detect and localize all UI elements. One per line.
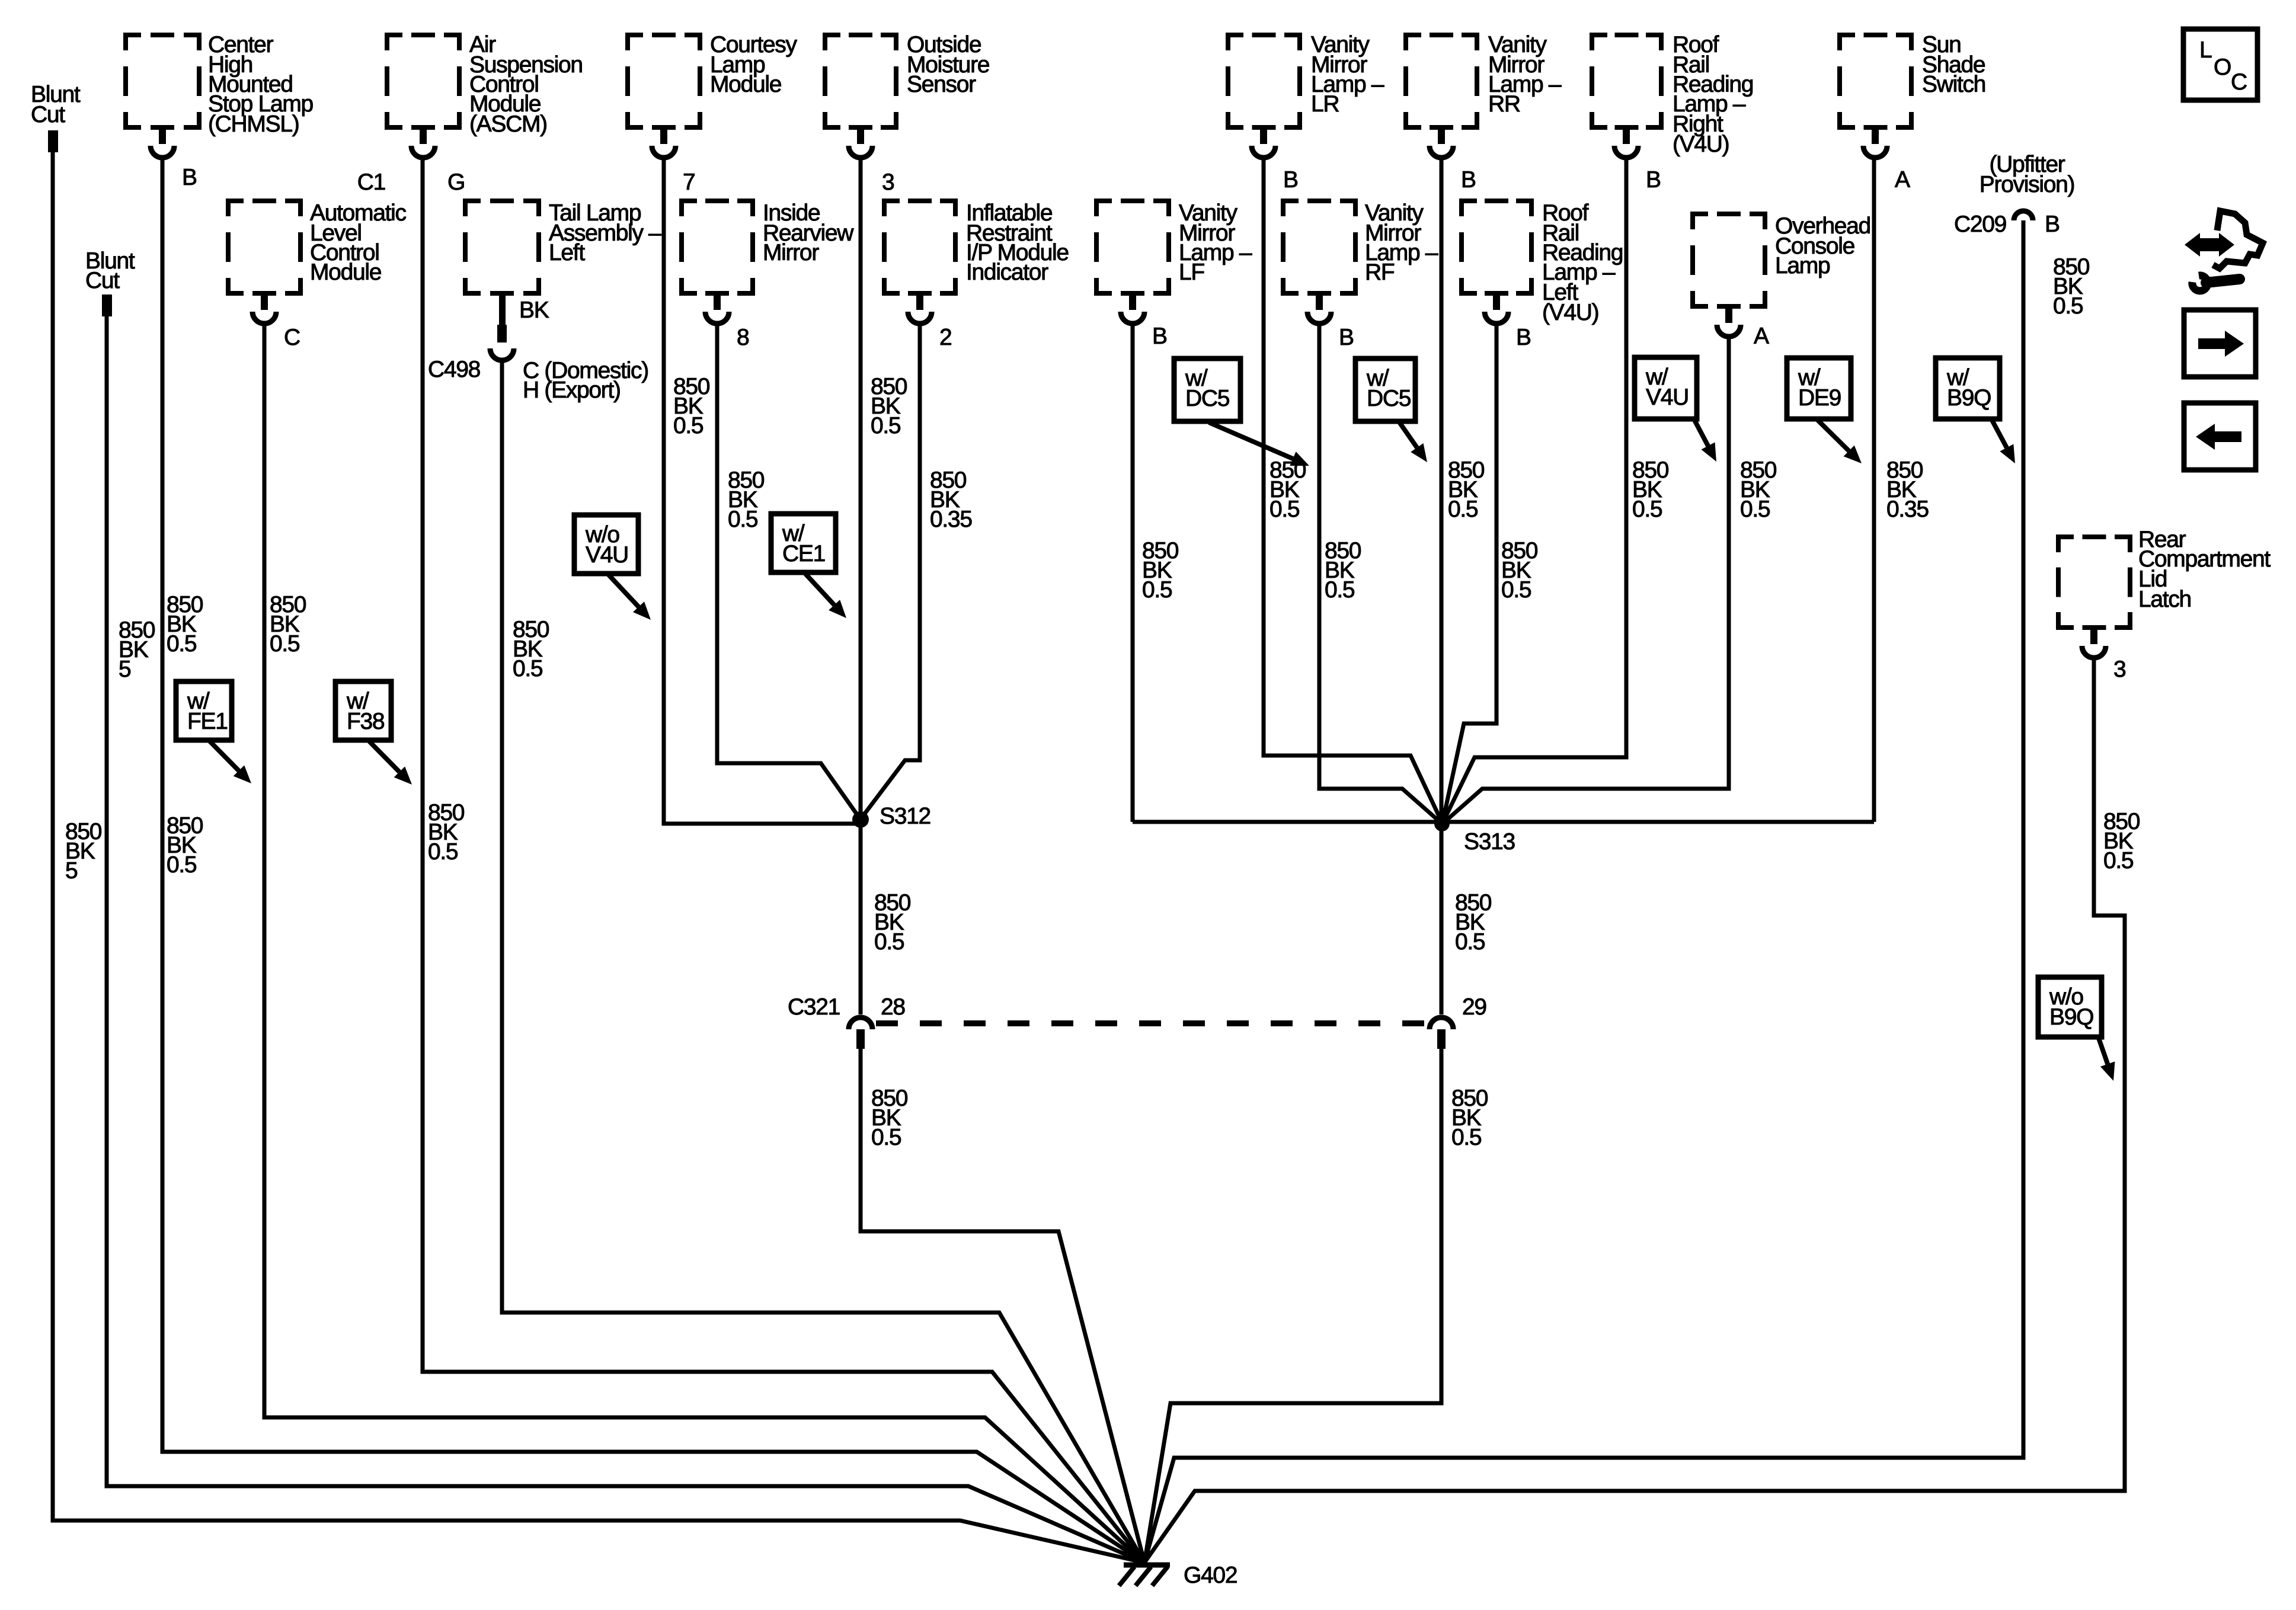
wire dashed harness line C321 between pin 28 and pin 29: [876, 1020, 1426, 1026]
svg-text:A: A: [1895, 167, 1910, 193]
component box Air Suspension Control Module (ASCM): [387, 35, 459, 127]
pin label H (Export): [523, 377, 621, 403]
label Sun Shade Switch name: [1922, 32, 1985, 97]
label Outside Moisture Sensor name: [907, 32, 989, 97]
svg-text:0.5: 0.5: [1501, 577, 1531, 603]
label Automatic Level Control Module name: [310, 200, 407, 285]
wire C209 B to G402: [1144, 220, 2023, 1563]
svg-text:(V4U): (V4U): [1542, 300, 1598, 325]
wire C321 pin 29 to G402: [1144, 1049, 1441, 1563]
svg-text:S313: S313: [1464, 829, 1515, 854]
svg-text:C1: C1: [357, 169, 385, 195]
wire Vanity Mirror RF B to S313: [1319, 322, 1442, 824]
connector label C321: [788, 994, 840, 1020]
label S313: [1464, 829, 1515, 854]
svg-text:L: L: [2199, 37, 2212, 63]
svg-text:B: B: [1152, 324, 1167, 349]
connector pigtail Overhead Console Lamp pin A: [1717, 306, 1741, 337]
svg-text:7: 7: [683, 169, 695, 195]
option box w/o V4U: [574, 515, 651, 620]
connector pigtail Roof Rail Reading Lamp Left pin B: [1485, 293, 1508, 324]
connector pigtail Sun Shade Switch pin A: [1863, 127, 1887, 158]
svg-text:S312: S312: [880, 804, 930, 829]
pin label 7 (Courtesy Lamp): [683, 169, 695, 195]
svg-text:B: B: [1516, 325, 1531, 350]
connector pigtail Vanity Mirror Lamp RF pin B: [1307, 293, 1331, 324]
wire label 850 BK 0.5 inside rearview mirror: [728, 468, 765, 532]
wire label 850 BK 0.5 vanity LR: [1269, 457, 1306, 522]
component box Sun Shade Switch: [1840, 35, 1911, 127]
svg-text:Module: Module: [310, 260, 381, 285]
wire S313 bus Vanity LF to Sun Shade: [1133, 820, 1874, 824]
svg-text:DC5: DC5: [1367, 386, 1411, 411]
pin label BK (Tail Lamp): [519, 297, 549, 323]
option box w/ FE1: [176, 681, 251, 783]
wire Tail Lamp C498 to G402: [502, 359, 1144, 1563]
wire label 850 BK 0.5 vanity LF: [1142, 538, 1179, 603]
svg-text:RR: RR: [1488, 91, 1520, 117]
label Upfitter Provision: [1980, 152, 2074, 197]
legend service icon (double arrow, outline, wrench): [2185, 211, 2263, 291]
svg-text:0.35: 0.35: [930, 507, 972, 532]
component box Inside Rearview Mirror: [682, 201, 753, 293]
component box Vanity Mirror Lamp RR: [1406, 35, 1477, 127]
pin label B (Vanity LR): [1283, 167, 1298, 193]
wire ALCM C to G402: [264, 322, 1144, 1563]
pin label B (Vanity RR): [1461, 167, 1476, 193]
pin label 2 (Inflatable Restraint): [939, 325, 951, 350]
svg-text:B: B: [1646, 167, 1661, 193]
wire Outside Moisture Sensor 3 to S312 to C321 pin 28: [859, 156, 863, 1014]
label Rear Compartment Lid Latch name: [2138, 527, 2271, 612]
pin label 3 (Rear Compartment Lid Latch): [2113, 657, 2125, 682]
label Tail Lamp Assembly Left name: [549, 200, 661, 265]
connector pigtail Vanity Mirror Lamp RR pin B: [1430, 127, 1453, 158]
svg-text:C: C: [2231, 69, 2247, 95]
svg-text:BK: BK: [519, 297, 549, 323]
wire label 850 BK 0.5 tail lamp: [513, 617, 549, 681]
connector C209 arc: [2014, 211, 2033, 220]
pin label C (Domestic): [523, 358, 648, 383]
wire label 850 BK 0.35 inflatable restraint: [930, 468, 972, 532]
svg-text:29: 29: [1462, 994, 1486, 1020]
svg-text:C209: C209: [1954, 212, 2006, 237]
connector pigtail ALCM pin C: [252, 293, 276, 324]
pin label B (Roof Rail Left): [1516, 325, 1531, 350]
wire CHMSL B to G402: [162, 156, 1144, 1563]
connector pigtail Vanity Mirror Lamp LF pin B: [1121, 293, 1144, 324]
svg-text:Cut: Cut: [31, 102, 65, 127]
svg-text:B9Q: B9Q: [1947, 385, 1991, 411]
svg-text:C498: C498: [428, 357, 480, 382]
svg-text:0.5: 0.5: [1740, 497, 1770, 522]
svg-text:0.5: 0.5: [513, 656, 543, 681]
svg-text:0.5: 0.5: [2103, 848, 2134, 873]
pin label G (ASCM): [447, 169, 465, 195]
connector pigtail Roof Rail Reading Lamp Right pin B: [1614, 127, 1638, 158]
blunt cut terminal 2: [102, 295, 112, 316]
svg-text:C: C: [284, 325, 300, 350]
wire Roof Rail Left B to S313: [1443, 322, 1496, 822]
svg-text:Lamp: Lamp: [1775, 253, 1830, 279]
wire label 850 BK 0.5 C209: [2053, 254, 2090, 319]
svg-text:O: O: [2214, 55, 2231, 80]
svg-text:Module: Module: [710, 72, 781, 97]
legend arrow box left: [2184, 403, 2256, 470]
wire label 850 BK 0.5 ASCM: [428, 800, 465, 865]
connector pigtail Inflatable Restraint pin 2: [908, 293, 932, 324]
wire label 850 BK 0.35 sun shade: [1886, 457, 1929, 522]
svg-text:0.5: 0.5: [167, 631, 197, 657]
connector pigtail ASCM C1 pin G: [411, 127, 435, 158]
wire label 850 BK 0.5 vanity RR: [1448, 457, 1485, 522]
wire Sun Shade A drop: [1872, 156, 1876, 822]
label ASCM name: [469, 32, 583, 137]
component box Tail Lamp Assembly Left: [465, 201, 539, 293]
connector label C498: [428, 357, 480, 382]
svg-text:DE9: DE9: [1798, 385, 1841, 411]
svg-text:0.5: 0.5: [1142, 577, 1172, 603]
wire label 850 BK 5 blunt cut 1: [65, 819, 102, 884]
label Blunt Cut 2: [85, 248, 135, 293]
option box w/ DC5 left: [1174, 359, 1309, 466]
junction S313: [1434, 816, 1450, 831]
pin label B (Roof Rail Right): [1646, 167, 1661, 193]
blunt cut terminal 1: [48, 130, 58, 152]
label Inside Rearview Mirror name: [763, 200, 854, 265]
svg-text:Latch: Latch: [2138, 587, 2191, 612]
svg-text:A: A: [1754, 324, 1769, 349]
wire label 850 BK 5 blunt cut 2: [119, 617, 155, 682]
connector C498 inline (tail lamp pin / stub / cup): [490, 293, 514, 360]
connector pigtail CHMSL pin B: [151, 127, 174, 158]
option box w/ F38: [335, 681, 412, 785]
connector label C209: [1954, 212, 2006, 237]
component box Roof Rail Reading Lamp Right (V4U): [1592, 35, 1661, 127]
wire label 850 BK 0.5 courtesy lamp: [673, 374, 710, 438]
svg-text:FE1: FE1: [187, 709, 228, 734]
svg-text:Indicator: Indicator: [966, 260, 1048, 285]
svg-text:0.5: 0.5: [1455, 929, 1485, 955]
wire label 850 BK 0.5 below C321 pin 29: [1451, 1086, 1488, 1150]
pin label 3 (Outside Moisture Sensor): [882, 169, 894, 195]
svg-text:3: 3: [882, 169, 894, 195]
component box Automatic Level Control Module: [228, 201, 300, 293]
svg-text:0.35: 0.35: [1886, 497, 1929, 522]
label Vanity Mirror Lamp LF name: [1179, 200, 1252, 285]
component box Outside Moisture Sensor: [825, 35, 896, 127]
pin label 29 (C321): [1462, 994, 1486, 1020]
svg-text:V4U: V4U: [1646, 385, 1689, 410]
label Blunt Cut 1: [31, 82, 81, 127]
svg-text:0.5: 0.5: [167, 852, 197, 878]
svg-text:F38: F38: [347, 709, 384, 734]
wire label 850 BK 0.5 CHMSL: [167, 592, 203, 657]
svg-text:C321: C321: [788, 994, 840, 1020]
svg-text:B9Q: B9Q: [2049, 1004, 2093, 1030]
component box Vanity Mirror Lamp RF: [1283, 201, 1355, 293]
pin label B (C209): [2045, 212, 2060, 237]
label Roof Rail Reading Lamp Left name: [1542, 200, 1623, 325]
wire label 850 BK 0.5 CHMSL lower: [167, 813, 203, 878]
svg-text:2: 2: [939, 325, 951, 350]
svg-text:Mirror: Mirror: [763, 240, 819, 265]
label Vanity Mirror Lamp RR name: [1488, 32, 1562, 117]
connector C321 pin 29 (dome and stub): [1430, 1017, 1453, 1049]
label Vanity Mirror Lamp RF name: [1365, 200, 1438, 285]
component box Rear Compartment Lid Latch: [2058, 537, 2130, 628]
pin label C (ALCM): [284, 325, 300, 350]
pin label 8 (Inside Rearview Mirror): [737, 325, 749, 350]
connector label C1: [357, 169, 385, 195]
svg-text:0.5: 0.5: [2053, 293, 2083, 319]
ground G402 symbol: [1119, 1565, 1170, 1586]
wire label 850 BK 0.5 vanity RF: [1325, 538, 1361, 603]
option box w/ B9Q: [1936, 358, 2015, 463]
wire Inflatable Restraint 2 to S312: [861, 322, 920, 818]
wire Vanity Mirror RR B to S313 to C321 pin 29: [1440, 156, 1444, 1014]
svg-text:DC5: DC5: [1185, 386, 1230, 411]
component box Courtesy Lamp Module: [628, 35, 700, 127]
legend arrow box right: [2184, 310, 2256, 377]
option box w/ CE1: [771, 514, 846, 618]
svg-text:0.5: 0.5: [871, 413, 901, 438]
label G402: [1184, 1563, 1237, 1588]
legend LOC box: [2183, 29, 2257, 100]
svg-text:5: 5: [65, 858, 78, 884]
wire Inside Rearview Mirror 8 to S312: [717, 322, 861, 820]
option box w/ DE9: [1787, 358, 1862, 463]
svg-text:0.5: 0.5: [728, 507, 758, 532]
label Courtesy Lamp Module name: [710, 32, 797, 97]
wire label 850 BK 0.5 roof rail right: [1632, 457, 1669, 522]
svg-text:Left: Left: [549, 240, 585, 265]
svg-text:Sensor: Sensor: [907, 72, 976, 97]
label Overhead Console Lamp name: [1775, 213, 1870, 279]
wire label 850 BK 0.5 outside moisture sensor: [871, 374, 907, 438]
option box w/o B9Q: [2038, 977, 2115, 1081]
wire label 850 BK 0.5 ALCM: [270, 592, 306, 657]
svg-text:0.5: 0.5: [270, 631, 300, 657]
svg-text:G: G: [447, 169, 465, 195]
svg-text:B: B: [1461, 167, 1476, 193]
svg-text:3: 3: [2113, 657, 2125, 682]
option box w/ V4U: [1635, 357, 1716, 462]
component box Center High Mounted Stop Lamp (CHMSL): [126, 35, 199, 127]
svg-text:B: B: [1283, 167, 1298, 193]
pin label B (Vanity LF): [1152, 324, 1167, 349]
svg-text:(V4U): (V4U): [1673, 132, 1729, 157]
wire label 850 BK 0.5 overhead console: [1740, 457, 1777, 522]
wire Vanity Mirror LF B drop: [1131, 322, 1135, 822]
svg-text:Switch: Switch: [1922, 72, 1985, 97]
svg-text:RF: RF: [1365, 260, 1395, 285]
svg-text:0.5: 0.5: [1448, 497, 1478, 522]
svg-text:0.5: 0.5: [874, 929, 904, 955]
svg-text:(ASCM): (ASCM): [469, 111, 547, 137]
wire blunt cut 2 to G402: [107, 316, 1144, 1563]
svg-text:B: B: [1339, 325, 1354, 350]
label Roof Rail Reading Lamp Right name: [1673, 32, 1753, 157]
svg-text:28: 28: [881, 994, 905, 1020]
svg-text:LF: LF: [1179, 260, 1204, 285]
option box w/ DC5 right: [1355, 359, 1427, 462]
component box Roof Rail Reading Lamp Left (V4U): [1462, 201, 1531, 293]
connector C321 pin 28 (dome and stub): [849, 1017, 872, 1049]
wire Vanity Mirror LR B to S313: [1264, 156, 1442, 822]
label CHMSL name: [208, 32, 314, 137]
wire label 850 BK 0.5 above C321 pin 28: [874, 890, 911, 955]
svg-text:8: 8: [737, 325, 749, 350]
component box Inflatable Restraint I/P Module Indicator: [884, 201, 955, 293]
label Inflatable Restraint name: [966, 200, 1069, 285]
svg-text:CE1: CE1: [782, 541, 825, 566]
junction S312: [852, 811, 869, 828]
connector pigtail Inside Rearview Mirror pin 8: [705, 293, 729, 324]
svg-text:Cut: Cut: [85, 268, 120, 293]
svg-text:0.5: 0.5: [1632, 497, 1662, 522]
svg-text:0.5: 0.5: [1325, 577, 1355, 603]
svg-text:(CHMSL): (CHMSL): [208, 111, 299, 137]
pin label 28 (C321): [881, 994, 905, 1020]
wire Roof Rail Right B to S313: [1443, 156, 1626, 823]
component box Vanity Mirror Lamp LR: [1228, 35, 1300, 127]
svg-text:0.5: 0.5: [1451, 1125, 1482, 1150]
wire label 850 BK 0.5 above C321 pin 29: [1455, 890, 1492, 955]
svg-text:B: B: [2045, 212, 2060, 237]
svg-text:V4U: V4U: [586, 542, 628, 568]
wire C321 pin 28 to G402: [861, 1049, 1144, 1563]
svg-text:0.5: 0.5: [673, 413, 703, 438]
wire Rear Compartment Lid Latch 3 to G402: [1144, 657, 2125, 1563]
wire Courtesy Lamp 7 to S312: [664, 156, 861, 824]
wire label 850 BK 0.5 roof rail left: [1501, 538, 1538, 603]
pin label B (CHMSL): [182, 165, 197, 190]
connector pigtail Vanity Mirror Lamp LR pin B: [1252, 127, 1275, 158]
label Vanity Mirror Lamp LR name: [1311, 32, 1384, 117]
svg-text:G402: G402: [1184, 1563, 1237, 1588]
component box Vanity Mirror Lamp LF: [1096, 201, 1169, 293]
wire blunt cut 1 to G402: [53, 152, 1144, 1563]
wire label 850 BK 0.5 rear lid latch: [2103, 809, 2140, 873]
component box Overhead Console Lamp: [1693, 214, 1765, 306]
connector pigtail Courtesy Lamp pin 7: [652, 127, 676, 158]
svg-text:Provision): Provision): [1980, 172, 2074, 197]
svg-text:0.5: 0.5: [428, 839, 458, 865]
wire label 850 BK 0.5 below C321 pin 28: [871, 1086, 908, 1150]
wire Overhead Console A to S313: [1443, 335, 1729, 824]
connector pigtail Outside Moisture Sensor pin 3: [849, 127, 872, 158]
connector pigtail Rear Compartment Lid Latch pin 3: [2082, 628, 2106, 658]
svg-text:H (Export): H (Export): [523, 377, 621, 403]
svg-text:LR: LR: [1311, 91, 1339, 117]
svg-text:B: B: [182, 165, 197, 190]
pin label A (Overhead Console Lamp): [1754, 324, 1769, 349]
svg-text:0.5: 0.5: [871, 1125, 901, 1150]
svg-text:0.5: 0.5: [1269, 497, 1300, 522]
svg-text:5: 5: [119, 657, 131, 682]
label S312: [880, 804, 930, 829]
wire ASCM G to G402: [423, 156, 1144, 1563]
pin label A (Sun Shade Switch): [1895, 167, 1910, 193]
pin label B (Vanity RF): [1339, 325, 1354, 350]
